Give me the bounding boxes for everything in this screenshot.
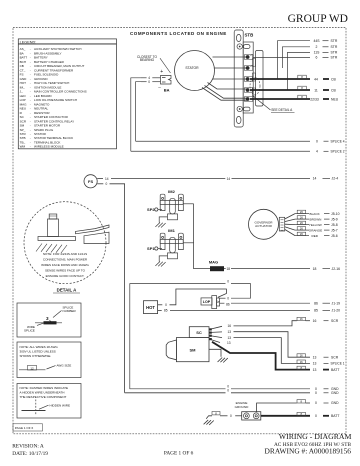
svg-text:SPLICE 2: SPLICE 2: [331, 150, 345, 154]
svg-text:0: 0: [227, 297, 229, 301]
svg-text:SHOWN OTHERWISE.: SHOWN OTHERWISE.: [20, 354, 52, 358]
svg-text:MAG: MAG: [209, 260, 218, 265]
svg-text:J5-10: J5-10: [331, 212, 340, 216]
svg-text:SM: SM: [190, 347, 197, 352]
svg-text:FS: FS: [88, 179, 93, 184]
svg-text:GND: GND: [331, 401, 339, 405]
svg-text:WIRING - DIAGRAM: WIRING - DIAGRAM: [279, 432, 352, 441]
svg-text:AWG SIZE: AWG SIZE: [57, 364, 72, 368]
svg-text:26: 26: [300, 227, 303, 231]
svg-text:SPLICE: SPLICE: [24, 329, 35, 333]
svg-text:J2-16: J2-16: [332, 267, 341, 271]
svg-text:0: 0: [227, 280, 229, 284]
svg-text:14: 14: [105, 177, 109, 181]
svg-text:GROUP WD: GROUP WD: [288, 13, 348, 25]
svg-text:J5-9: J5-9: [331, 217, 338, 221]
svg-text:STR: STR: [331, 39, 338, 43]
svg-text:+: +: [160, 69, 163, 75]
svg-text:J2-4: J2-4: [332, 177, 339, 181]
svg-text:86: 86: [314, 301, 318, 305]
svg-text:LOP: LOP: [203, 300, 211, 304]
svg-text:DATE: 10/17/19: DATE: 10/17/19: [12, 451, 48, 457]
svg-text:SENSE WIRES FACE UP TO: SENSE WIRES FACE UP TO: [45, 269, 86, 273]
svg-text:NOTE: ALL WIRES 18 AWG: NOTE: ALL WIRES 18 AWG: [20, 345, 59, 349]
svg-text:BLACK: BLACK: [310, 212, 321, 216]
svg-text:16: 16: [300, 360, 303, 364]
svg-text:HOT: HOT: [146, 305, 155, 310]
svg-text:CB: CB: [331, 77, 336, 81]
svg-text:SPLICE 1: SPLICE 1: [331, 362, 345, 366]
svg-text:HIDDEN WIRE: HIDDEN WIRE: [50, 403, 70, 407]
svg-text:WM: WM: [20, 145, 26, 149]
svg-text:16: 16: [300, 354, 303, 358]
svg-text:SC: SC: [196, 330, 202, 335]
svg-text:THE RESPECTIVE COMPONENT: THE RESPECTIVE COMPONENT: [20, 395, 67, 399]
svg-text:ENSURE GOOD CONTACT.: ENSURE GOOD CONTACT.: [46, 274, 85, 278]
svg-text:3: 3: [46, 316, 49, 321]
svg-text:PAGE 1 OF 6: PAGE 1 OF 6: [15, 426, 34, 430]
svg-text:BATT: BATT: [331, 368, 339, 372]
svg-text:16: 16: [228, 324, 232, 328]
svg-text:NOTE: FOR 44/44S AND 11/11S: NOTE: FOR 44/44S AND 11/11S: [43, 252, 87, 256]
svg-text:IM2: IM2: [168, 189, 175, 194]
svg-text:44: 44: [314, 77, 318, 81]
svg-text:–: –: [158, 85, 161, 90]
svg-text:13: 13: [228, 336, 232, 340]
svg-text:26: 26: [300, 210, 303, 214]
svg-text:PAGE 1 OF 6: PAGE 1 OF 6: [164, 451, 194, 457]
svg-text:0: 0: [315, 414, 317, 418]
svg-text:SEE DETAIL A: SEE DETAIL A: [271, 108, 293, 112]
svg-text:0: 0: [165, 303, 167, 307]
svg-text:STR: STR: [331, 45, 338, 49]
svg-text:26: 26: [300, 221, 303, 225]
svg-text:13: 13: [228, 330, 232, 334]
svg-text:13: 13: [227, 341, 231, 345]
svg-text:STR: STR: [331, 51, 338, 55]
svg-text:16: 16: [300, 317, 303, 321]
svg-text:SP1: SP1: [147, 246, 155, 251]
svg-text:0: 0: [148, 80, 150, 84]
svg-text:RED: RED: [312, 234, 319, 238]
svg-text:14: 14: [227, 177, 231, 181]
svg-text:18: 18: [313, 267, 317, 271]
svg-text:CB: CB: [331, 88, 336, 92]
svg-text:REVISION: A: REVISION: A: [12, 443, 44, 449]
svg-text:YELLOW: YELLOW: [309, 223, 322, 227]
svg-text:SCR: SCR: [331, 355, 339, 359]
svg-text:0: 0: [106, 182, 108, 186]
svg-text:DRAWING #: A0000189156: DRAWING #: A0000189156: [265, 447, 352, 456]
svg-text:J1-19: J1-19: [332, 301, 341, 305]
svg-text:85: 85: [314, 309, 318, 313]
svg-text:J1-20: J1-20: [332, 309, 341, 313]
svg-text:WIRES FACE DOWN AND 16AWG: WIRES FACE DOWN AND 16AWG: [41, 263, 89, 267]
svg-text:26: 26: [300, 232, 303, 236]
svg-text:BEARING: BEARING: [140, 58, 155, 62]
svg-text:J5-7: J5-7: [331, 228, 338, 232]
svg-text:NUMBER: NUMBER: [63, 309, 77, 313]
svg-text:STATOR: STATOR: [185, 66, 199, 70]
svg-text:GND: GND: [331, 391, 339, 395]
svg-text:14: 14: [313, 177, 317, 181]
svg-text:86: 86: [226, 303, 230, 307]
svg-text:0: 0: [230, 414, 232, 418]
svg-text:13: 13: [313, 355, 317, 359]
svg-text:85: 85: [164, 309, 168, 313]
svg-text:A HIDDEN WIRE UNDERNEATH: A HIDDEN WIRE UNDERNEATH: [20, 391, 65, 395]
svg-text:6: 6: [316, 56, 318, 60]
svg-text:SP2: SP2: [147, 207, 155, 212]
svg-text:12: 12: [30, 366, 34, 370]
svg-text:0: 0: [227, 389, 229, 393]
svg-text:SPLICE 4: SPLICE 4: [331, 139, 345, 143]
svg-text:44S: 44S: [313, 39, 320, 43]
svg-text:STB: STB: [245, 32, 254, 37]
svg-text:22/33: 22/33: [310, 97, 319, 101]
svg-text:ACTUATOR: ACTUATOR: [255, 224, 272, 228]
svg-text:0: 0: [315, 401, 317, 405]
svg-text:STR: STR: [331, 56, 338, 60]
svg-text:18: 18: [227, 267, 231, 271]
svg-text:26: 26: [300, 216, 303, 220]
svg-text:SCR: SCR: [331, 319, 339, 323]
svg-text:J5-8: J5-8: [331, 223, 338, 227]
svg-text:LEGEND:: LEGEND:: [20, 40, 37, 44]
svg-text:11S: 11S: [314, 51, 321, 55]
svg-text:0: 0: [316, 139, 318, 143]
svg-text:J5-6: J5-6: [331, 234, 338, 238]
svg-text:ORANGE: ORANGE: [309, 228, 322, 232]
svg-text:GROUND: GROUND: [235, 405, 250, 409]
svg-text:13: 13: [313, 368, 317, 372]
svg-text:16: 16: [313, 319, 317, 323]
svg-text:-: -: [30, 145, 31, 149]
svg-text:13: 13: [313, 362, 317, 366]
svg-text:NEU: NEU: [331, 97, 339, 101]
svg-text:300V UL LISTED UNLESS: 300V UL LISTED UNLESS: [20, 349, 56, 353]
svg-text:WIRELESS MODULE: WIRELESS MODULE: [34, 145, 64, 149]
svg-text:CONNECTIONS, MAIN POWER: CONNECTIONS, MAIN POWER: [43, 258, 88, 262]
svg-text:BROWN: BROWN: [310, 217, 322, 221]
svg-text:2: 2: [316, 45, 318, 49]
svg-text:DETAIL A: DETAIL A: [57, 288, 78, 293]
svg-text:0: 0: [315, 391, 317, 395]
svg-text:BA: BA: [164, 88, 170, 93]
svg-text:4: 4: [316, 150, 318, 154]
svg-text:NOTE: DASHED WIRES INDICATE: NOTE: DASHED WIRES INDICATE: [20, 386, 69, 390]
svg-text:IM1: IM1: [168, 228, 175, 233]
svg-text:COMPONENTS LOCATED ON ENGINE: COMPONENTS LOCATED ON ENGINE: [130, 31, 227, 36]
svg-text:BATT: BATT: [331, 414, 339, 418]
svg-text:11: 11: [314, 88, 318, 92]
